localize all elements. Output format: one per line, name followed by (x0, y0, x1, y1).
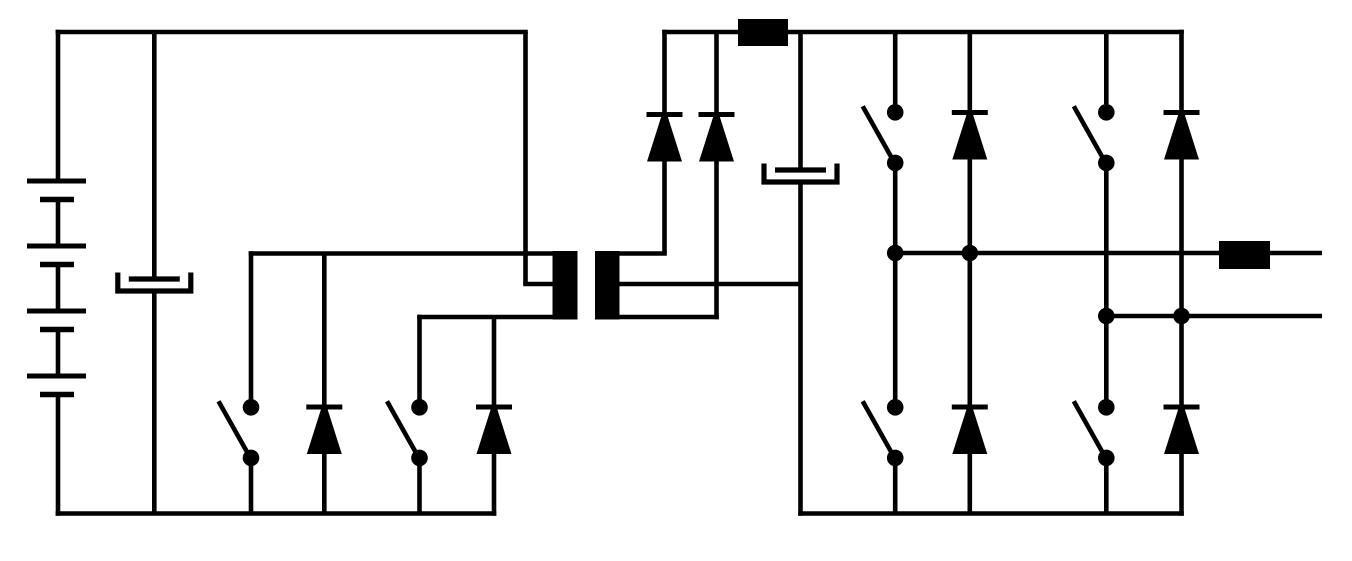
diode D8 cathode bar (1164, 405, 1200, 410)
diode D2 cathode bar (699, 112, 735, 117)
wire between battery cells 2-3 (56, 265, 61, 312)
wire: vertical from top rail to transformer primary center tap (523, 32, 528, 284)
node: leg3 junction on output line B (1098, 308, 1115, 325)
battery B1 cell4 short plate (40, 392, 74, 398)
wire: diode D1 leg vertical to top rail (662, 30, 667, 254)
wire: top rail (right section) (662, 30, 1184, 35)
switch S1 blade (219, 401, 251, 457)
diode D3 anode triangle (308, 410, 342, 454)
fuse F1 block on top rail (738, 19, 788, 46)
wire: left vertical from battery to bottom rail (56, 395, 61, 516)
wire: inverter leg1 middle segment (893, 163, 898, 407)
wire: inverter leg2 vertical (967, 32, 972, 514)
diode D3 cathode bar (306, 405, 342, 410)
battery B1 cell3 short plate (40, 327, 74, 333)
switch S4 blade (863, 401, 895, 457)
diode D2 anode triangle (700, 118, 734, 162)
capacitor C1 (input) bottom plate (bracket) (118, 273, 191, 292)
switch S3 lower contact dot (887, 155, 904, 172)
switch S6 blade (1074, 401, 1106, 457)
diode D1 anode triangle (648, 118, 682, 162)
switch S6 upper contact dot (1098, 399, 1115, 416)
diode D4 cathode bar (476, 405, 512, 410)
diode D6 anode triangle (953, 410, 987, 454)
wire: bottom rail (right section) (798, 511, 1184, 516)
wire: DC link capacitor leg to bottom rail (798, 182, 803, 516)
wire: transformer secondary center tap to DC link (617, 282, 801, 287)
diode D5 anode triangle (953, 116, 987, 160)
wire: transformer secondary bottom to diode D2 leg (595, 315, 719, 320)
diode D4 anode triangle (477, 410, 511, 454)
inductor L1 block on output line A (1219, 241, 1270, 269)
wire: DC link capacitor leg from top rail (798, 32, 803, 170)
battery B1 cell3 long plate (27, 309, 86, 314)
diode D1 cathode bar (647, 112, 683, 117)
wire: inverter leg1 from top rail to switch S3 (893, 32, 898, 104)
wire between battery cells 1-2 (56, 200, 61, 247)
switch S2 lower contact dot (411, 450, 428, 467)
transformer T1 primary winding block (553, 251, 578, 320)
wire between battery cells 3-4 (56, 330, 61, 377)
wire: horizontal into transformer primary center tap (523, 282, 554, 287)
wire: node B horizontal (bridge lower output to transformer primary bottom) (417, 315, 554, 320)
switch S3 blade (863, 106, 895, 162)
switch S4 lower contact dot (887, 450, 904, 467)
wire: bottom rail (left section) (56, 511, 497, 516)
wire: diode leg D3 vertical (322, 254, 327, 514)
wire: output line B (1106, 314, 1322, 319)
switch S1 upper contact dot (243, 399, 260, 416)
wire: inverter leg1 to bottom rail (893, 458, 898, 514)
battery B1 cell4 long plate (27, 374, 86, 379)
wire: switch S2 leg from node B down (417, 315, 422, 400)
wire: switch S1 leg from node A down (249, 251, 254, 399)
transformer T1 secondary winding block (595, 251, 620, 320)
battery B1 cell2 short plate (40, 262, 74, 268)
capacitor C2 (DC link) top plate (775, 167, 826, 172)
wire: inverter leg3 middle segment (1104, 163, 1109, 407)
wire: diode D2 leg vertical from top rail down (714, 32, 719, 319)
battery B1 cell2 long plate (27, 244, 86, 249)
battery B1 cell1 short plate (40, 197, 74, 203)
wire: inverter leg3 from top rail to switch S5 (1104, 32, 1109, 104)
wire: transformer secondary top to diode D1 leg (617, 251, 667, 256)
switch S5 lower contact dot (1098, 155, 1115, 172)
wire: switch S2 leg to bottom rail (417, 458, 422, 514)
diode D8 anode triangle (1165, 410, 1199, 454)
wire: input capacitor leg from top rail down (152, 32, 157, 279)
switch S4 upper contact dot (887, 399, 904, 416)
switch S5 blade (1074, 106, 1106, 162)
wire: left vertical from top rail to battery (56, 30, 61, 181)
switch S1 lower contact dot (243, 450, 260, 467)
wire: inverter leg3 to bottom rail (1104, 458, 1109, 514)
switch S2 upper contact dot (411, 399, 428, 416)
switch S3 upper contact dot (887, 104, 904, 121)
node: leg2 junction on output line A (962, 245, 979, 262)
switch S5 upper contact dot (1098, 104, 1115, 121)
capacitor C1 (input) top plate (129, 276, 180, 281)
wire: top rail (left section) (56, 30, 528, 35)
wire: switch S1 leg to bottom rail (249, 458, 254, 514)
node: leg4 junction on output line B (1173, 308, 1190, 325)
diode D7 cathode bar (1164, 110, 1200, 115)
wire: output line A (895, 251, 1322, 256)
switch S2 blade (387, 401, 419, 457)
wire: inverter leg4 vertical (1179, 30, 1184, 516)
diode D5 cathode bar (952, 110, 988, 115)
wire: input capacitor leg down to bottom rail (152, 291, 157, 514)
battery B1 cell1 long plate (27, 179, 86, 184)
wire: node A horizontal (bridge upper output to transformer primary top) (249, 251, 554, 256)
switch S6 lower contact dot (1098, 450, 1115, 467)
node: leg1 junction on output line A (887, 245, 904, 262)
capacitor C2 (DC link) bottom plate (bracket) (764, 164, 837, 183)
diode D7 anode triangle (1165, 116, 1199, 160)
diode D6 cathode bar (952, 405, 988, 410)
wire: diode leg D4 vertical (492, 317, 497, 516)
